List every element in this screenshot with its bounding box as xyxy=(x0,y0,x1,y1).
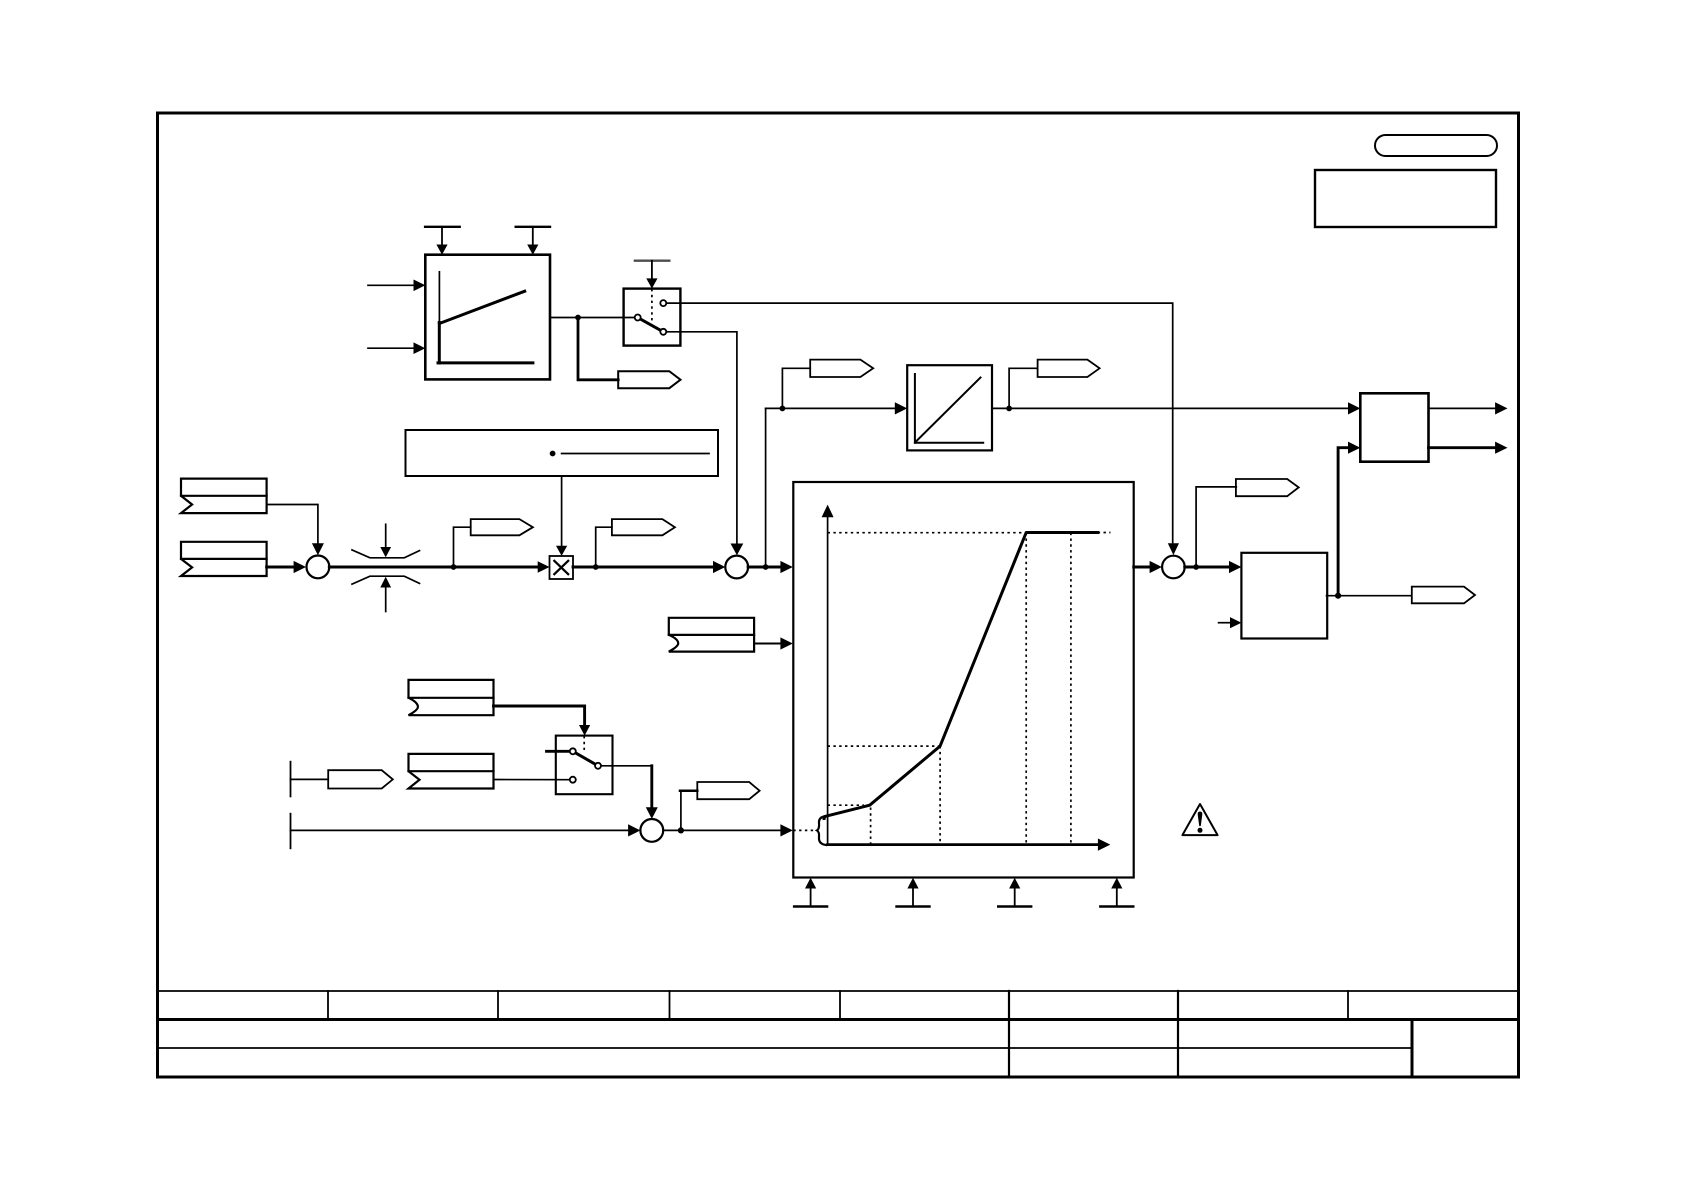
arrowhead into upper block upper input xyxy=(1348,402,1360,414)
arrowhead into multiplier left xyxy=(538,561,550,573)
wire switch1 lower contact to down xyxy=(666,332,737,543)
ramp block input arrow 1 xyxy=(368,280,425,292)
output connector pentagon r-ramp xyxy=(618,371,680,388)
arrowhead into summing circle 3 left xyxy=(1150,561,1162,573)
drawing frame border xyxy=(158,113,1519,1077)
ramp block input arrow 2 xyxy=(368,342,425,354)
arrowhead into multiplier top xyxy=(556,546,567,556)
linearization inner axes and diagonal xyxy=(915,374,983,443)
limiter symbol upper polyline xyxy=(352,550,420,558)
top-right rectangle box xyxy=(1315,170,1496,227)
connector pentagon 6 xyxy=(1412,587,1475,604)
junction dot after circle 4 xyxy=(678,827,684,833)
riser to pentagon 7 xyxy=(680,791,682,831)
wire flag B to summing circle 1 xyxy=(267,566,295,569)
arrowhead into summing circle 3 top xyxy=(1168,543,1179,555)
arrowhead into summing circle 2 left xyxy=(713,561,725,573)
title block full divider 6 xyxy=(1177,991,1179,1077)
wire ramp block output to switch xyxy=(550,317,635,319)
input flag A (setpoint upper) xyxy=(181,479,267,513)
characteristic x-axis xyxy=(828,839,1111,851)
title block row1 divider 2 xyxy=(497,991,499,1020)
limiter upper arrow xyxy=(380,524,391,557)
linearization y=x box xyxy=(907,365,992,450)
switch 2 lever xyxy=(573,751,598,766)
title block thick middle line xyxy=(158,1018,1519,1021)
junction dot on lower block output xyxy=(1335,593,1341,599)
select flag above switch 2 (rounded notch) xyxy=(409,680,494,715)
arrowhead into lower block xyxy=(1229,561,1241,573)
big box input arrow mid (from flag) xyxy=(754,637,793,649)
title block row1 divider 7 xyxy=(1347,991,1349,1020)
arrowhead into big box main input xyxy=(780,561,792,573)
switch 1 dotted select line xyxy=(651,289,653,320)
riser wire to pentagon 2 xyxy=(596,527,612,567)
multiplier X symbol xyxy=(554,561,568,574)
connector pentagon 4 xyxy=(1038,360,1100,377)
connector pentagon 1 xyxy=(471,519,533,535)
dotted vertical right of knee 3 xyxy=(1070,533,1072,845)
switch 2 contact circles xyxy=(570,748,601,782)
input flag B (setpoint lower) xyxy=(181,542,267,576)
changeover switch 2 box xyxy=(556,736,613,795)
connector pentagon 5 xyxy=(1236,479,1299,496)
ground T symbol 3 under big box xyxy=(998,878,1031,907)
summing circle 4 xyxy=(640,819,663,842)
wire linearization row left xyxy=(766,407,897,409)
big box bottom input arrow xyxy=(780,824,792,836)
characteristic curve xyxy=(824,533,1098,819)
dotted vertical at knee 3 xyxy=(1025,533,1027,845)
parameter slider long box xyxy=(406,430,719,476)
junction dot after linearization xyxy=(1006,406,1012,412)
junction dot before multiplier tap xyxy=(451,564,457,570)
summing circle 2 xyxy=(725,556,748,579)
slider line xyxy=(562,453,709,455)
reference flag mid (rounded notch) xyxy=(669,618,754,652)
title block row1 divider 3 xyxy=(669,991,671,1020)
wire terminal to pentagon L xyxy=(291,778,329,780)
title block row1 divider 4 xyxy=(839,991,841,1020)
main line multiplier to summing circle 2 xyxy=(573,566,714,569)
junction dot after multiplier xyxy=(593,564,599,570)
arrowhead into summing circle 1 top xyxy=(312,543,324,555)
big box output thick line xyxy=(1134,566,1151,569)
title block row1 divider 1 xyxy=(327,991,329,1020)
junction dot on ramp output xyxy=(575,315,581,321)
ramp-function generator block xyxy=(425,255,550,380)
dotted vertical at knee 2 xyxy=(939,746,941,845)
ground T symbol 1 under big box xyxy=(794,878,827,907)
dotted offset line at bottom input xyxy=(793,829,817,831)
dotted continuation of flat top xyxy=(1098,532,1111,534)
main line circle1 to multiplier xyxy=(329,566,538,569)
riser to pentagon 5 xyxy=(1196,487,1236,567)
switch 1 lever xyxy=(638,318,664,332)
big characteristic box xyxy=(793,482,1133,878)
connector pentagon 7 xyxy=(697,782,759,799)
slider dot xyxy=(550,451,556,457)
output line circle3 to lower block xyxy=(1185,566,1231,569)
ground T symbol 2 under big box xyxy=(897,878,930,907)
ground T symbol 4 under big box xyxy=(1100,878,1133,907)
changeover switch 1 box xyxy=(624,289,681,346)
riser wire to pentagon 1 xyxy=(454,527,471,567)
wire down from ramp output junction to connector xyxy=(578,318,618,380)
multiplier box xyxy=(550,556,574,579)
dotted level line top xyxy=(828,532,1027,534)
wire circle 4 to big box xyxy=(663,829,781,831)
arrowhead into summing circle 1 left xyxy=(294,561,306,573)
junction dot after circle3 xyxy=(1193,564,1199,570)
main line circle2 to big box xyxy=(748,566,781,569)
lower block output wire xyxy=(1327,595,1412,597)
wire flag to switch 2 select input xyxy=(494,706,591,736)
curly brace offset marker xyxy=(817,816,826,845)
wire switch1 upper contact long to right xyxy=(666,303,1172,542)
riser from main line up to linearization row xyxy=(765,408,767,567)
limiter symbol lower polyline xyxy=(352,576,420,584)
junction dot left of linearization box xyxy=(780,406,786,412)
riser to pentagon 3 xyxy=(782,368,810,408)
gray T-bar parameter above switch 1 xyxy=(635,261,669,289)
thick feedback wire up to upper block xyxy=(1338,448,1349,596)
warning triangle xyxy=(1182,804,1217,835)
T parameter symbol 1 above ramp block xyxy=(425,227,460,255)
terminal bar upper left xyxy=(290,762,292,797)
dotted vertical at knee 1 xyxy=(870,808,872,845)
top-right pill badge xyxy=(1375,135,1497,156)
summing circle 1 xyxy=(307,556,330,579)
ramp block inner characteristic xyxy=(438,272,533,363)
upper right block xyxy=(1360,393,1428,461)
title block thick vertical divider xyxy=(1411,1020,1414,1078)
connector pentagon 3 xyxy=(810,360,873,377)
junction dot after circle2 xyxy=(763,564,769,570)
input flag D (zigzag) xyxy=(409,754,494,789)
arrowhead into linearization box xyxy=(895,402,907,414)
wire flag A to summing circle 1 top xyxy=(267,505,318,544)
switch 1 contact circles xyxy=(635,300,667,335)
dotted level line middle xyxy=(828,745,941,747)
wire linearization output xyxy=(992,407,1350,409)
characteristic y-axis xyxy=(822,505,834,845)
switch 2 stub input xyxy=(547,750,570,753)
arrowhead into summing circle 2 top xyxy=(731,544,744,556)
wire switch 2 output down to circle 4 xyxy=(601,766,658,819)
upper block output 2 thick xyxy=(1429,442,1508,454)
upper block output 1 thin xyxy=(1429,402,1508,414)
T parameter symbol 2 above ramp block xyxy=(516,227,550,255)
wire from slider box down to multiplier xyxy=(561,476,563,546)
lower block aux input arrow xyxy=(1219,617,1242,628)
terminal bar lower left xyxy=(290,814,292,849)
dotted level line low xyxy=(828,804,864,806)
summing circle 3 xyxy=(1162,556,1185,579)
limiter lower arrow xyxy=(380,577,391,612)
wire flag D to switch 2 lower contact xyxy=(494,779,570,781)
title block full divider 5 xyxy=(1008,991,1010,1077)
arrowhead into upper block lower input xyxy=(1348,442,1360,454)
long wire terminal to summing circle 4 xyxy=(291,829,629,831)
title block top line xyxy=(158,990,1519,992)
title block lower thin line xyxy=(158,1047,1413,1049)
riser to pentagon 4 xyxy=(1009,368,1038,408)
connector pentagon 2 xyxy=(612,519,675,535)
switch 2 dotted select line xyxy=(583,736,585,751)
lower right block xyxy=(1241,553,1327,639)
input connector pentagon L xyxy=(328,770,393,788)
arrowhead into summing circle 4 left xyxy=(628,824,640,836)
